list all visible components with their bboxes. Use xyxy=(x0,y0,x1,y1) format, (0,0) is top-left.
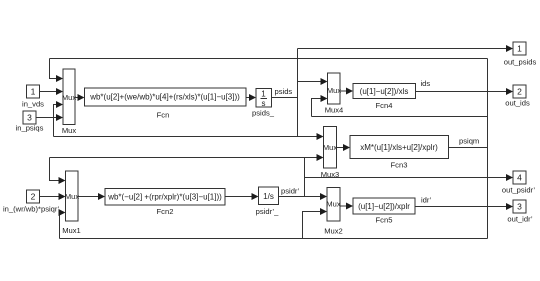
arrowhead into integrator2 xyxy=(252,193,259,200)
svg-text:Mux: Mux xyxy=(62,93,76,102)
input port 2 in_(wr/wb)*psiqr' xyxy=(3,190,60,214)
wire idr to out_idr xyxy=(416,206,509,208)
arrowhead into Fcn3 xyxy=(343,144,350,151)
arrowhead into Mux in3 xyxy=(56,101,63,108)
wire psids branch to Mux4 in1 xyxy=(298,81,323,83)
arrowhead into Fcn5 xyxy=(346,203,353,210)
arrowhead into Mux4 in2 xyxy=(321,95,328,102)
arrowhead Mux output xyxy=(78,94,85,101)
wire in_psiqs to Mux in4 xyxy=(36,117,58,119)
svg-text:psidr’_: psidr’_ xyxy=(256,207,279,216)
svg-text:1: 1 xyxy=(31,87,36,97)
svg-text:Fcn2: Fcn2 xyxy=(157,207,174,216)
svg-text:wb*(−u[2] +(rpr/xplr)*(u[3]−u[: wb*(−u[2] +(rpr/xplr)*(u[3]−u[1])) xyxy=(107,193,222,202)
svg-text:(u[1]−u[2])/xplr: (u[1]−u[2])/xplr xyxy=(358,202,410,211)
svg-text:Mux: Mux xyxy=(326,200,340,209)
wire psiqm riser into Mux4 in2 xyxy=(312,99,323,117)
mux block Mux2 xyxy=(324,188,343,236)
input port 1 in_vds xyxy=(22,85,44,109)
input port 3 in_psiqs xyxy=(16,111,44,133)
wire psiqm bottom horizontal xyxy=(60,238,488,240)
wire psids to out_psids xyxy=(298,48,509,50)
wire psidr feedback horizontal and to Mux3 in2 xyxy=(50,157,319,159)
svg-text:Fcn4: Fcn4 xyxy=(376,101,393,110)
arrowhead into Mux1 in2 xyxy=(59,193,66,200)
svg-text:in_(wr/wb)*psiqr’: in_(wr/wb)*psiqr’ xyxy=(3,205,60,214)
wire psiqm mid horizontal to Mux4 in2 xyxy=(312,116,488,118)
svg-text:Mux2: Mux2 xyxy=(324,227,343,236)
arrowhead into out_psidr xyxy=(506,174,513,181)
arrowhead into Mux3 in2 xyxy=(317,154,324,161)
arrowhead into out_ids xyxy=(506,88,513,95)
svg-text:Mux: Mux xyxy=(323,143,337,152)
arrowhead into Mux in4 xyxy=(56,114,63,121)
wire psiqm riser into Mux2 in2 xyxy=(303,212,322,239)
fcn block Fcn3 xyxy=(350,136,449,170)
wire psiqm riser into Mux1 in3 xyxy=(60,213,61,239)
arrowhead into out_idr xyxy=(506,203,513,210)
arrowhead into Mux in2 xyxy=(56,88,63,95)
wire psids riser into Mux in3 xyxy=(54,105,59,137)
svg-text:wb*(u[2]+(we/wb)*u[4]+(rs/xls): wb*(u[2]+(we/wb)*u[4]+(rs/xls)*(u[1]−u[3… xyxy=(89,93,240,102)
wire psiqm vertical trunk xyxy=(487,59,489,239)
wire psidr vertical branch xyxy=(304,158,306,197)
wire ids to out_ids xyxy=(416,91,509,93)
wire psiqm feedback drop into Mux in1 xyxy=(50,59,59,79)
svg-text:Mux: Mux xyxy=(327,86,341,95)
svg-text:2: 2 xyxy=(517,87,522,97)
svg-text:Mux4: Mux4 xyxy=(325,106,344,115)
fcn block Fcn5 xyxy=(353,198,415,225)
svg-text:out_idr’: out_idr’ xyxy=(507,215,533,224)
svg-text:psidr’: psidr’ xyxy=(281,187,300,196)
output port 4 out_psidr' xyxy=(502,171,536,195)
wire psids lower horizontal to Mux3 in1 xyxy=(54,136,319,138)
mux block Mux1 xyxy=(62,171,81,235)
svg-text:Fcn5: Fcn5 xyxy=(376,216,393,225)
svg-text:out_psids: out_psids xyxy=(504,58,537,67)
svg-text:Fcn: Fcn xyxy=(157,111,170,120)
arrowhead into integrator1 xyxy=(249,94,256,101)
fcn block Fcn xyxy=(85,88,247,120)
svg-text:ids: ids xyxy=(421,79,431,88)
svg-text:out_ids: out_ids xyxy=(505,99,530,108)
output port 3 out_idr' xyxy=(507,200,533,224)
wire Fcn to integrator1 xyxy=(246,97,252,99)
wire in_vds to Mux in2 xyxy=(40,91,59,93)
wire psidr to out_psidr xyxy=(305,177,509,179)
svg-text:Mux3: Mux3 xyxy=(321,170,340,179)
svg-text:(u[1]−u[2])/xls: (u[1]−u[2])/xls xyxy=(360,87,409,96)
svg-text:in_psiqs: in_psiqs xyxy=(16,124,44,133)
svg-text:3: 3 xyxy=(27,113,32,123)
svg-text:4: 4 xyxy=(517,173,522,183)
wire Mux3 to Fcn3 xyxy=(337,147,346,149)
output port 2 out_ids xyxy=(505,85,530,108)
integrator block psids_ xyxy=(252,89,275,118)
arrowhead into Mux2 in1 xyxy=(320,193,327,200)
fcn block Fcn4 xyxy=(353,84,416,111)
wire Mux4 to Fcn4 xyxy=(340,90,349,92)
arrowhead into Mux1 in3 xyxy=(59,209,66,216)
svg-text:idr’: idr’ xyxy=(421,196,432,205)
arrowhead into Mux in1 xyxy=(56,75,63,82)
svg-text:Mux1: Mux1 xyxy=(62,226,81,235)
arrowhead into Fcn2 xyxy=(98,193,105,200)
svg-text:Fcn3: Fcn3 xyxy=(391,161,408,170)
wire psids: integrator1 output to junction xyxy=(272,97,298,99)
svg-text:psids_: psids_ xyxy=(252,109,275,118)
wire psidr feedback drop into Mux1 in1 xyxy=(50,158,61,181)
svg-text:out_psidr’: out_psidr’ xyxy=(502,186,536,195)
svg-text:2: 2 xyxy=(31,192,36,202)
svg-text:1: 1 xyxy=(261,90,266,99)
wire Fcn2 to integrator2 xyxy=(225,196,254,198)
svg-text:psiqm: psiqm xyxy=(459,137,479,146)
mux block Mux xyxy=(62,69,77,135)
svg-text:Mux: Mux xyxy=(62,126,77,135)
integrator block psidr'_ xyxy=(256,187,279,216)
wire psiqm from Fcn3 output xyxy=(449,147,488,149)
arrowhead into Mux1 in1 xyxy=(59,177,66,184)
svg-text:s: s xyxy=(262,99,266,108)
wire Mux2 to Fcn5 xyxy=(340,205,349,207)
arrowhead into Mux4 in1 xyxy=(321,78,328,85)
svg-text:in_vds: in_vds xyxy=(22,100,44,109)
wire psidr from integrator2 to Mux2 in1 xyxy=(279,196,322,198)
mux block Mux4 xyxy=(325,73,344,115)
arrowhead into Mux2 in2 xyxy=(320,208,327,215)
wire in2 to Mux1 in2 xyxy=(40,196,61,198)
svg-text:xM*(u[1]/xls+u[2]/xplr): xM*(u[1]/xls+u[2]/xplr) xyxy=(360,143,438,152)
output port 1 out_psids xyxy=(504,42,537,67)
svg-text:3: 3 xyxy=(517,202,522,212)
fcn block Fcn2 xyxy=(105,189,225,217)
wire psiqm top feedback horizontal xyxy=(50,58,488,60)
svg-text:psids: psids xyxy=(275,87,293,96)
mux block Mux3 xyxy=(321,127,340,180)
svg-text:1: 1 xyxy=(517,44,522,54)
wire psids vertical trunk xyxy=(297,49,299,137)
arrowhead into Mux3 in1 xyxy=(317,133,324,140)
svg-text:Mux: Mux xyxy=(65,192,79,201)
wire Mux to Fcn xyxy=(75,97,80,99)
svg-text:1/s: 1/s xyxy=(263,192,274,201)
arrowhead into Fcn4 xyxy=(346,88,353,95)
wire Mux1 to Fcn2 xyxy=(78,196,100,198)
arrowhead into out_psids xyxy=(506,45,513,52)
